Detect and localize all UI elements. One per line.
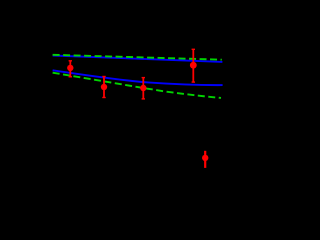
- data point 3 errorbar: [140, 78, 146, 99]
- model curve: blue solid A (upper): [53, 56, 223, 62]
- model curve: green dashed B (lower): [53, 73, 221, 98]
- model curve: blue solid B (lower): [53, 70, 223, 85]
- data point 2 errorbar: [101, 77, 107, 98]
- data point 5 errorbar (lone, lower right): [202, 151, 208, 168]
- data point 1 errorbar: [67, 61, 73, 77]
- model curve: green dashed A (upper): [53, 55, 222, 60]
- data point 4 errorbar: [190, 49, 197, 82]
